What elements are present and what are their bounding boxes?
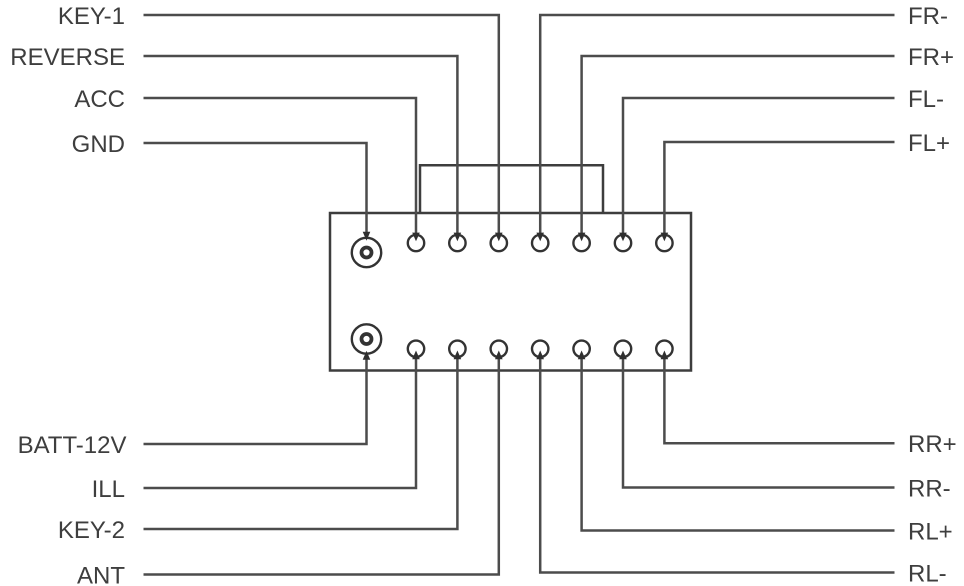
svg-text:RR-: RR- (908, 476, 951, 503)
pin B8 (656, 341, 672, 357)
arrow into pin T4 (495, 233, 503, 242)
svg-text:ILL: ILL (92, 476, 125, 503)
arrow into pin T5 (536, 233, 544, 242)
wire FR+ (582, 56, 895, 234)
arrow into pin T8 (661, 233, 669, 242)
arrow into pin B3 (454, 351, 462, 360)
svg-text:ANT: ANT (77, 563, 125, 586)
wire ACC (144, 98, 417, 234)
pin B1 large (BATT-12V) (352, 324, 381, 353)
arrow into pin B8 (661, 351, 669, 360)
pin T2 (408, 235, 424, 251)
svg-text:RL-: RL- (908, 561, 947, 586)
arrow into pin T2 (412, 233, 420, 242)
pin B7 (615, 341, 631, 357)
svg-text:ACC: ACC (74, 86, 125, 113)
wire BATT-12V (144, 356, 367, 444)
wire ANT (144, 358, 499, 575)
pin B2 (408, 341, 424, 357)
pin B6 (573, 341, 589, 357)
svg-text:FR+: FR+ (908, 44, 954, 71)
svg-text:RL+: RL+ (908, 519, 953, 546)
pin T8 (656, 235, 672, 251)
pin T7 (615, 235, 631, 251)
svg-text:FL-: FL- (908, 86, 944, 113)
wire REVERSE (144, 56, 458, 234)
arrow into pin T6 (578, 233, 586, 242)
arrow into pin B1 (363, 351, 371, 360)
wire KEY-1 (144, 15, 499, 234)
arrow into pin B4 (495, 351, 503, 360)
arrow into pin B2 (412, 351, 420, 360)
wire FL- (623, 98, 895, 234)
pin B5 (532, 341, 548, 357)
pin T5 (532, 235, 548, 251)
svg-text:RR+: RR+ (908, 431, 957, 458)
wire KEY-2 (144, 358, 458, 529)
svg-text:BATT-12V: BATT-12V (18, 432, 127, 459)
arrow into pin T1 (363, 232, 371, 241)
arrow into pin B5 (536, 351, 544, 360)
pin B3 (449, 341, 465, 357)
pin T6 (573, 235, 589, 251)
pin T3 (449, 235, 465, 251)
svg-text:KEY-2: KEY-2 (58, 517, 125, 544)
arrow into pin B7 (619, 351, 627, 360)
connector key tab (420, 165, 603, 213)
wire FR- (540, 15, 894, 234)
svg-text:FR-: FR- (908, 3, 948, 30)
svg-text:FL+: FL+ (908, 130, 950, 157)
wire GND (144, 143, 367, 233)
svg-text:REVERSE: REVERSE (10, 44, 125, 71)
arrow into pin B6 (578, 351, 586, 360)
pin T4 (491, 235, 507, 251)
wire RL+ (582, 358, 895, 531)
arrow into pin T3 (454, 233, 462, 242)
svg-text:KEY-1: KEY-1 (58, 3, 125, 30)
pin B4 (491, 341, 507, 357)
wire RR+ (664, 358, 894, 443)
wire FL+ (664, 142, 894, 234)
pin T1 large (GND) (352, 238, 381, 267)
connector body (330, 213, 691, 371)
wire ILL (144, 358, 417, 488)
wire RL- (540, 358, 894, 573)
svg-text:GND: GND (72, 131, 125, 158)
wire RR- (623, 358, 895, 488)
arrow into pin T7 (619, 233, 627, 242)
